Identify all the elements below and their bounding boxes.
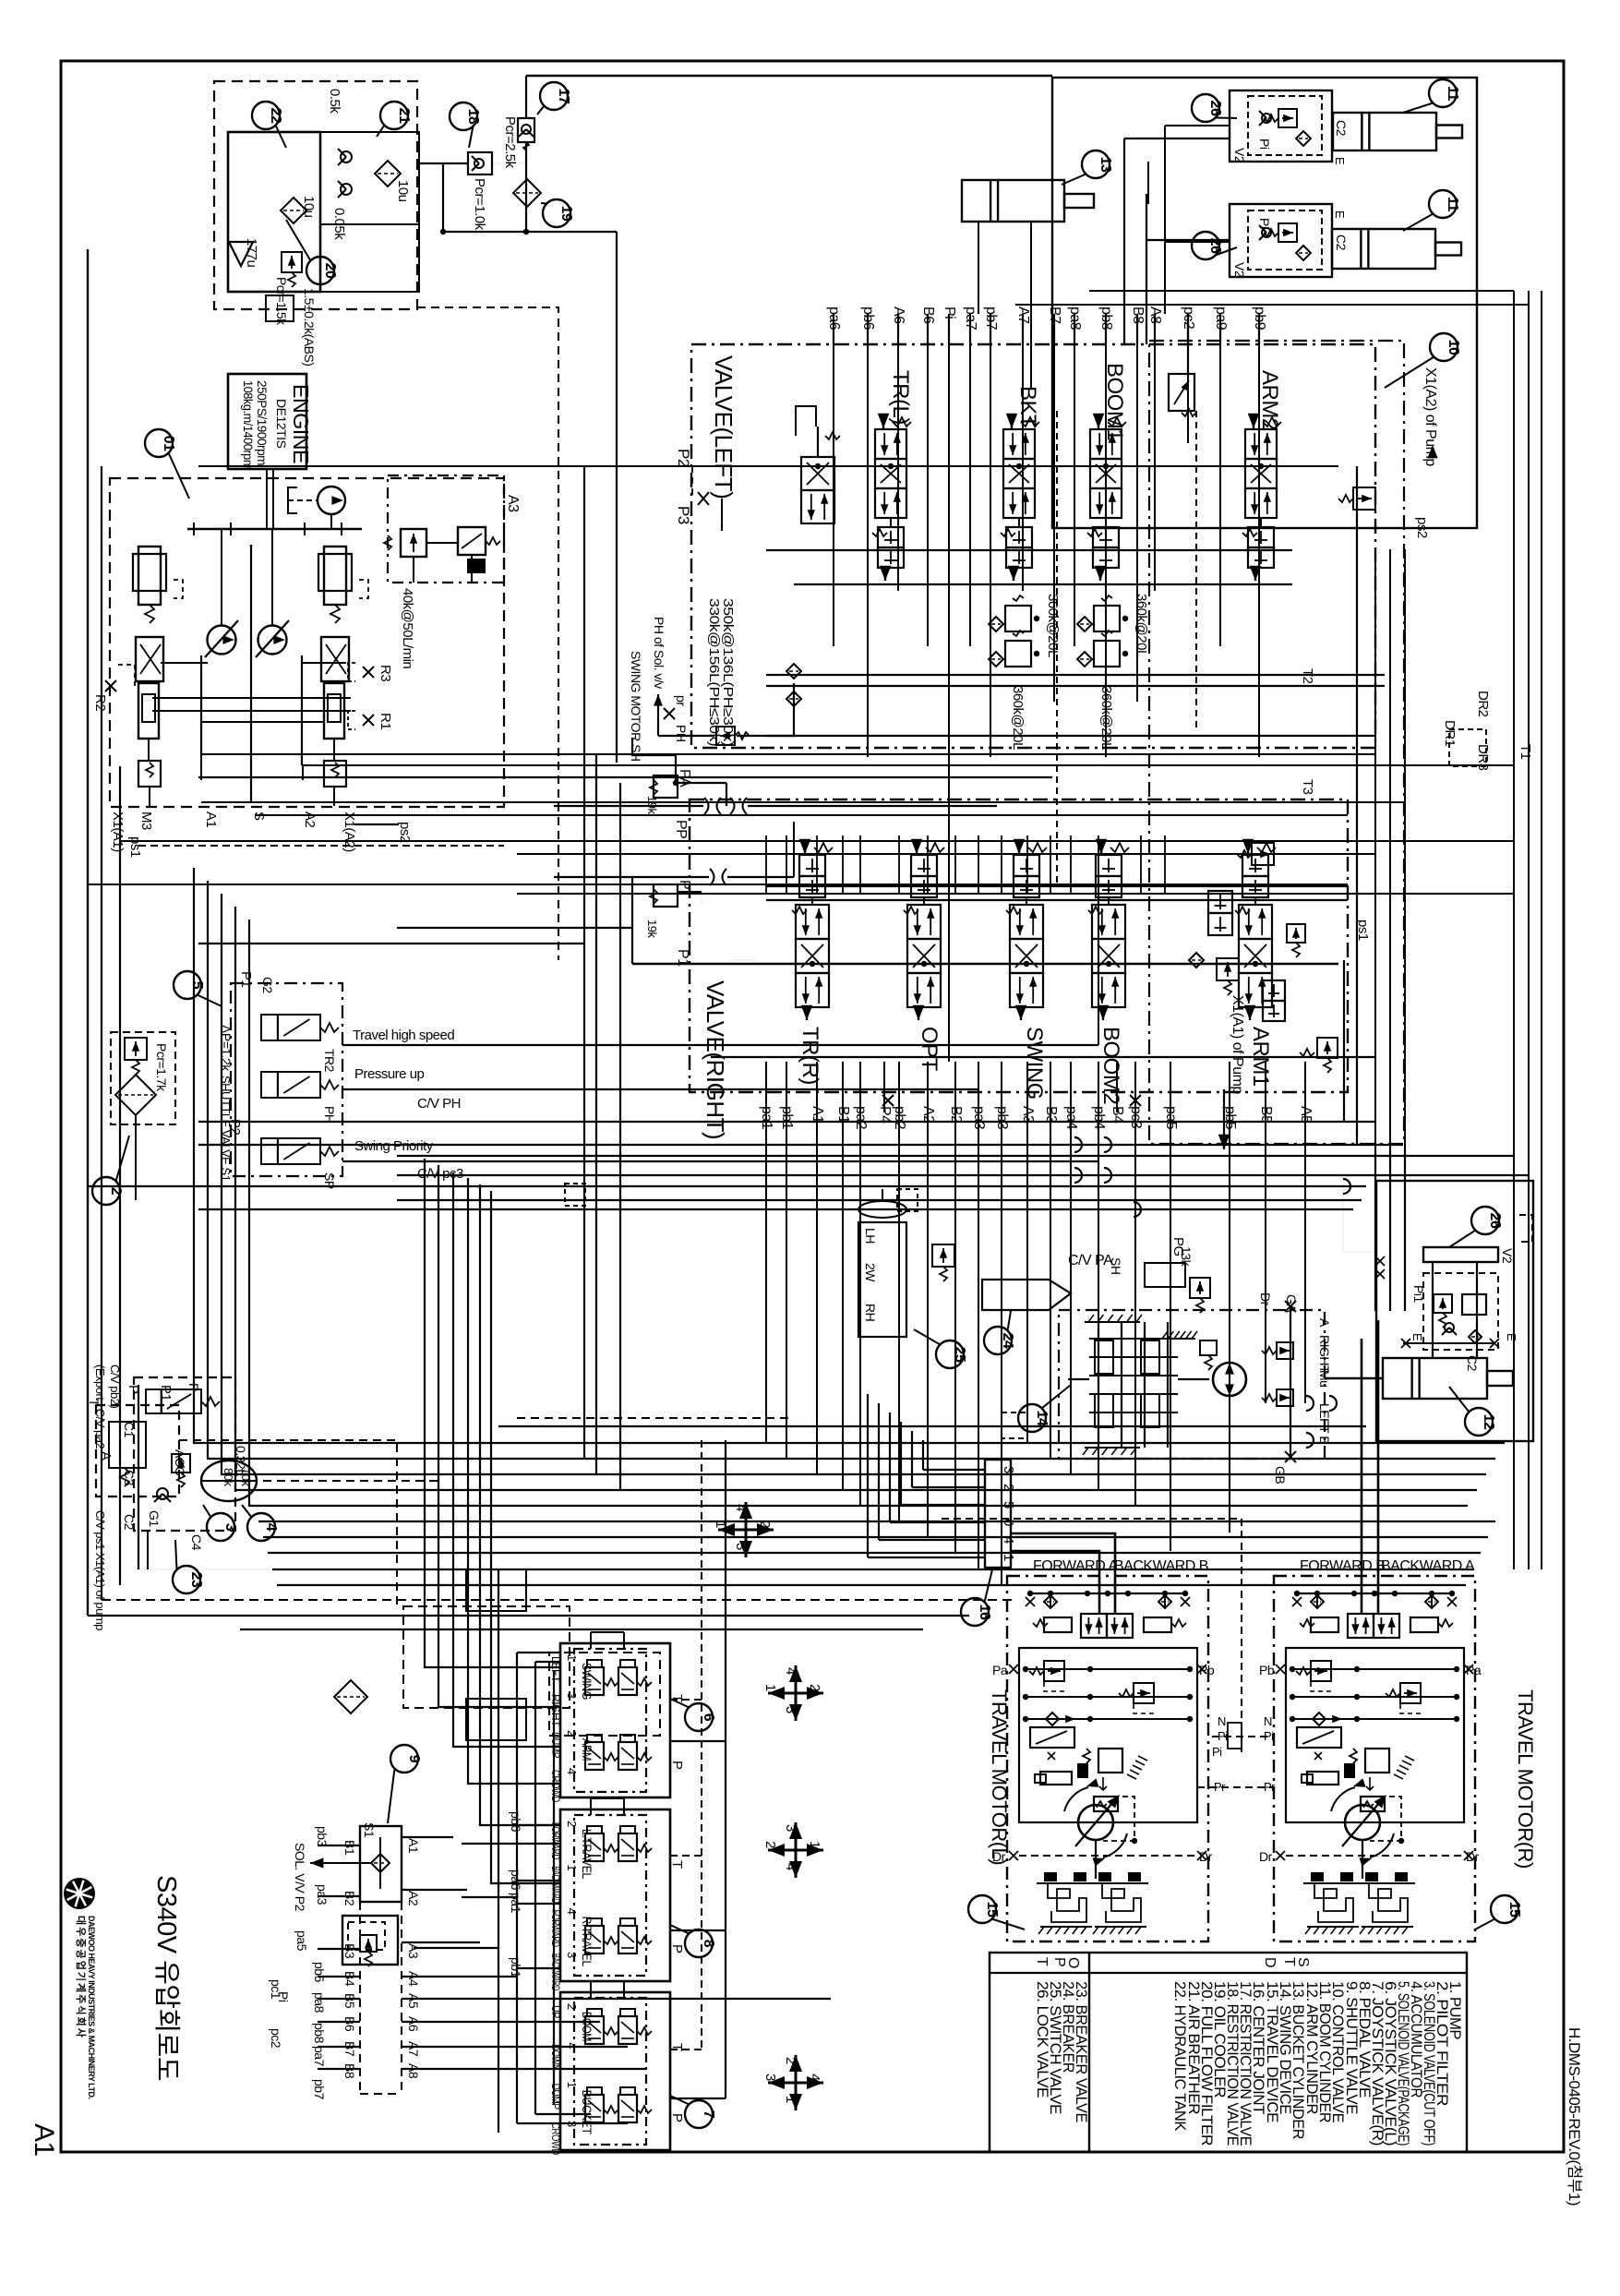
svg-text:대 우 중 공 업 기 계 주 식 회 사: 대 우 중 공 업 기 계 주 식 회 사 — [75, 1916, 88, 2038]
svg-text:V2: V2 — [1232, 262, 1247, 278]
svg-text:Pi: Pi — [1257, 138, 1272, 150]
svg-text:Dr: Dr — [1258, 1292, 1273, 1306]
svg-text:C/V PH: C/V PH — [417, 1096, 461, 1112]
svg-text:15: 15 — [1506, 1902, 1522, 1917]
svg-text:A7: A7 — [406, 2041, 421, 2057]
svg-text:A6: A6 — [406, 2016, 421, 2032]
svg-text:V2: V2 — [1500, 1248, 1515, 1264]
svg-text:0: 0 — [1001, 1519, 1016, 1526]
svg-text:pa6: pa6 — [509, 1869, 523, 1891]
svg-text:B8: B8 — [342, 2063, 357, 2079]
svg-text:Pi: Pi — [276, 1991, 291, 2002]
svg-text:pa1: pa1 — [509, 1893, 523, 1914]
svg-text:Pi: Pi — [1218, 1729, 1228, 1743]
svg-text:C/V pb2): C/V pb2) — [108, 1364, 122, 1408]
svg-text:Pi: Pi — [1212, 1745, 1222, 1759]
svg-text:2: 2 — [757, 1521, 773, 1528]
svg-text:pb3: pb3 — [315, 1826, 330, 1847]
svg-text:R3: R3 — [378, 665, 393, 681]
svg-text:24: 24 — [1000, 1333, 1015, 1349]
svg-text:X1(A1) of Pump: X1(A1) of Pump — [1230, 995, 1245, 1094]
svg-text:A1: A1 — [29, 2123, 59, 2157]
svg-text:B4: B4 — [342, 1971, 357, 1987]
svg-text:Swing Priority: Swing Priority — [354, 1138, 434, 1154]
svg-text:GB: GB — [1273, 1466, 1288, 1484]
svg-text:10u: 10u — [301, 196, 317, 218]
svg-text:80k: 80k — [222, 1468, 235, 1486]
svg-text:4: 4 — [565, 2042, 579, 2049]
svg-text:BACKWARD A: BACKWARD A — [1381, 1558, 1475, 1574]
svg-text:2: 2 — [1001, 1484, 1016, 1491]
svg-text:E: E — [1505, 1333, 1518, 1341]
svg-text:PG: PG — [1170, 1237, 1186, 1256]
svg-text:RIGHT: RIGHT — [1317, 1335, 1332, 1374]
svg-text:ENGINE: ENGINE — [289, 384, 313, 463]
svg-text:22: 22 — [268, 108, 283, 124]
svg-text:N: N — [1264, 1714, 1272, 1728]
svg-text:TR(R): TR(R) — [798, 1027, 822, 1085]
svg-text:4: 4 — [565, 1908, 579, 1915]
svg-text:2W: 2W — [863, 1263, 878, 1282]
svg-text:pr: pr — [674, 695, 689, 706]
svg-text:C/V PA: C/V PA — [1068, 1253, 1113, 1268]
svg-text:19k: 19k — [645, 920, 659, 938]
svg-text:D: D — [1262, 1957, 1278, 1967]
svg-text:BOOM2: BOOM2 — [1098, 1027, 1123, 1104]
svg-text:BACKWARD B: BACKWARD B — [1114, 1558, 1208, 1574]
svg-text:FORWARD: FORWARD — [549, 1910, 562, 1948]
svg-text:Pressure up: Pressure up — [354, 1066, 425, 1082]
svg-text:9: 9 — [406, 1755, 422, 1763]
svg-text:H.DMS-0405-REV.0(첨부1): H.DMS-0405-REV.0(첨부1) — [1566, 2027, 1583, 2206]
svg-text:15: 15 — [984, 1902, 1000, 1917]
svg-text:7: 7 — [701, 2110, 716, 2119]
svg-text:P2: P2 — [675, 449, 692, 467]
svg-text:DUMP: DUMP — [549, 2084, 562, 2110]
svg-text:3: 3 — [733, 1543, 749, 1550]
svg-text:B5: B5 — [342, 1993, 357, 2009]
svg-text:M3: M3 — [138, 811, 154, 830]
svg-text:S1: S1 — [362, 1822, 377, 1838]
svg-text:10u: 10u — [395, 180, 411, 202]
svg-text:4: 4 — [783, 1863, 798, 1870]
svg-text:250PS/1900rpm: 250PS/1900rpm — [255, 380, 270, 465]
svg-text:11: 11 — [1445, 86, 1460, 102]
svg-text:P: P — [1051, 1957, 1067, 1966]
svg-text:S: S — [1295, 1957, 1311, 1966]
svg-text:25: 25 — [952, 1347, 967, 1363]
svg-text:TR(L): TR(L) — [888, 370, 913, 425]
svg-text:11: 11 — [1445, 197, 1460, 212]
svg-text:R1: R1 — [378, 713, 393, 729]
svg-text:B6: B6 — [342, 2016, 357, 2032]
svg-text:BACKWARD: BACKWARD — [549, 1866, 562, 1904]
svg-text:VALVE(RIGHT): VALVE(RIGHT) — [702, 980, 729, 1139]
svg-text:PH of Sol. v/v: PH of Sol. v/v — [652, 617, 666, 689]
svg-text:E: E — [1410, 1333, 1424, 1341]
svg-text:TR2: TR2 — [322, 1049, 337, 1073]
svg-text:VALVE(LEFT): VALVE(LEFT) — [710, 355, 738, 499]
svg-text:ps2: ps2 — [1414, 517, 1430, 538]
svg-text:P: P — [669, 2113, 685, 2122]
svg-text:14: 14 — [1034, 1411, 1050, 1426]
svg-text:SP: SP — [322, 1172, 337, 1189]
svg-text:1: 1 — [1001, 1554, 1016, 1561]
svg-text:1: 1 — [807, 1841, 822, 1848]
svg-text:360k@20L: 360k@20L — [1134, 594, 1149, 657]
svg-text:BUCKET: BUCKET — [580, 2090, 594, 2135]
svg-text:22. HYDRAULIC TANK: 22. HYDRAULIC TANK — [1171, 1981, 1188, 2131]
svg-text:N: N — [1218, 1714, 1226, 1728]
svg-text:5: 5 — [189, 981, 205, 990]
svg-text:Pcr=1.7k: Pcr=1.7k — [154, 1043, 169, 1092]
svg-text:P1: P1 — [238, 971, 254, 988]
svg-text:FORWARD B: FORWARD B — [1300, 1558, 1385, 1574]
svg-text:B2: B2 — [342, 1891, 357, 1906]
svg-text:A8: A8 — [406, 2063, 421, 2079]
svg-text:A5: A5 — [406, 1993, 421, 2009]
svg-text:330k@156L(PH≤30k): 330k@156L(PH≤30k) — [706, 598, 722, 747]
svg-text:ps1: ps1 — [127, 836, 143, 858]
svg-text:BACKWARD: BACKWARD — [549, 1953, 562, 1991]
svg-text:E: E — [1333, 210, 1347, 219]
svg-text:P: P — [186, 1383, 201, 1391]
svg-text:RIGHT: RIGHT — [549, 1694, 562, 1727]
svg-text:P: P — [669, 1761, 685, 1770]
svg-text:T: T — [1281, 1957, 1297, 1966]
svg-text:CROWD: CROWD — [549, 1770, 562, 1803]
svg-text:5: 5 — [1001, 1501, 1016, 1509]
svg-text:C3: C3 — [122, 1470, 137, 1486]
svg-text:108kg.m/1400rpm: 108kg.m/1400rpm — [241, 380, 256, 469]
svg-text:BKT: BKT — [1015, 386, 1040, 428]
svg-text:Pcr=1.0k: Pcr=1.0k — [472, 178, 487, 231]
svg-text:T: T — [1034, 1957, 1050, 1966]
svg-text:C2: C2 — [1465, 1355, 1480, 1372]
svg-text:L.TRAVEL: L.TRAVEL — [580, 1829, 594, 1880]
svg-text:SHUTTLE VALVE S1: SHUTTLE VALVE S1 — [219, 1076, 233, 1182]
svg-text:A3: A3 — [505, 495, 521, 512]
svg-text:6: 6 — [701, 1713, 716, 1722]
svg-text:pb8: pb8 — [312, 2023, 327, 2044]
svg-text:DR2: DR2 — [1475, 691, 1491, 717]
svg-text:2: 2 — [565, 2003, 579, 2010]
svg-text:13: 13 — [1098, 157, 1113, 173]
svg-text:2: 2 — [783, 2057, 798, 2064]
svg-text:pb6: pb6 — [509, 1811, 523, 1833]
svg-text:DAEWOO HEAVY INDUSTRIES & MACH: DAEWOO HEAVY INDUSTRIES & MACHINERY LTD. — [87, 1916, 96, 2099]
svg-text:A4: A4 — [406, 1971, 421, 1987]
svg-text:350k@136L(PH≥30k): 350k@136L(PH≥30k) — [720, 598, 736, 747]
svg-text:pa3: pa3 — [315, 1884, 330, 1905]
svg-text:X1(A1): X1(A1) — [110, 811, 126, 852]
svg-text:C/V ps1 X1(A1) of pump: C/V ps1 X1(A1) of pump — [93, 1510, 107, 1630]
svg-text:T: T — [669, 1860, 685, 1869]
svg-text:Travel high speed: Travel high speed — [353, 1028, 454, 1043]
svg-text:P: P — [669, 1944, 685, 1953]
svg-text:V2: V2 — [1232, 148, 1247, 163]
svg-text:A1: A1 — [203, 811, 219, 828]
svg-text:26: 26 — [1207, 101, 1223, 116]
svg-text:Pi1: Pi1 — [1411, 1285, 1426, 1303]
svg-text:1: 1 — [565, 1864, 579, 1870]
svg-text:SH: SH — [1109, 1257, 1123, 1274]
svg-text:20: 20 — [322, 263, 338, 279]
svg-text:A2: A2 — [406, 1891, 421, 1906]
svg-text:pa7: pa7 — [312, 2046, 327, 2067]
svg-text:C2: C2 — [122, 1514, 137, 1531]
svg-text:pb5: pb5 — [312, 1962, 327, 1983]
svg-text:P3: P3 — [675, 506, 692, 524]
svg-text:3: 3 — [565, 1692, 579, 1699]
svg-text:1: 1 — [762, 1684, 778, 1691]
svg-text:177u: 177u — [244, 238, 259, 268]
svg-text:360k@20L: 360k@20L — [1098, 686, 1114, 750]
svg-text:PH: PH — [674, 725, 689, 741]
svg-text:10k: 10k — [239, 1468, 253, 1486]
svg-text:ps2: ps2 — [397, 822, 413, 843]
svg-text:(Export : C/V pa2: (Export : C/V pa2 — [93, 1364, 107, 1449]
svg-text:01: 01 — [161, 436, 176, 451]
svg-text:pa5: pa5 — [294, 1930, 309, 1952]
svg-text:FORWARD: FORWARD — [549, 1822, 562, 1860]
svg-text:CROWD: CROWD — [549, 2122, 562, 2156]
svg-text:T2: T2 — [1300, 668, 1315, 684]
svg-text:26: 26 — [1487, 1213, 1503, 1229]
svg-text:LH: LH — [863, 1228, 878, 1244]
svg-text:C2: C2 — [1334, 234, 1349, 251]
svg-text:23: 23 — [188, 1572, 204, 1588]
svg-text:TRAVEL MOTOR(L): TRAVEL MOTOR(L) — [988, 1689, 1011, 1865]
svg-text:TRAVEL MOTOR(R): TRAVEL MOTOR(R) — [1514, 1689, 1537, 1869]
svg-text:1.5±0.2k(ABS): 1.5±0.2k(ABS) — [302, 288, 317, 366]
svg-text:3: 3 — [565, 1952, 579, 1958]
svg-text:10: 10 — [1446, 340, 1461, 355]
svg-text:Pi: Pi — [1257, 218, 1272, 229]
svg-text:ΔP=1.2k: ΔP=1.2k — [219, 1025, 234, 1072]
svg-text:1: 1 — [565, 1654, 579, 1661]
svg-text:ARM2: ARM2 — [1257, 370, 1282, 430]
svg-text:Dr: Dr — [1259, 1849, 1273, 1864]
svg-text:21: 21 — [396, 108, 412, 124]
svg-text:3: 3 — [783, 1706, 798, 1713]
svg-text:BOOM1: BOOM1 — [1102, 363, 1127, 440]
svg-text:A2: A2 — [302, 811, 318, 828]
svg-text:C1: C1 — [122, 1422, 137, 1438]
svg-text:PP: PP — [673, 820, 689, 838]
svg-text:SWING MOTOR SH: SWING MOTOR SH — [629, 651, 643, 762]
svg-text:pa8: pa8 — [312, 1992, 327, 2014]
svg-text:DOWN: DOWN — [549, 2044, 562, 2070]
svg-text:360k@20L: 360k@20L — [1010, 686, 1026, 750]
svg-text:2: 2 — [762, 1841, 778, 1848]
svg-text:360k@20L: 360k@20L — [1045, 594, 1061, 657]
svg-text:E: E — [1333, 157, 1347, 165]
svg-text:Pb: Pb — [1259, 1663, 1275, 1677]
svg-text:SWING: SWING — [1022, 1027, 1047, 1100]
svg-text:0.5k: 0.5k — [327, 89, 342, 114]
svg-text:1: 1 — [565, 2082, 579, 2088]
svg-text:B1: B1 — [342, 1840, 357, 1856]
svg-text:0.05k: 0.05k — [331, 208, 347, 240]
svg-text:4: 4 — [565, 1768, 579, 1774]
svg-text:O: O — [1065, 1957, 1081, 1968]
svg-text:Pi: Pi — [1264, 1729, 1274, 1743]
svg-text:17: 17 — [556, 89, 571, 104]
svg-text:2: 2 — [565, 1821, 579, 1827]
svg-text:4: 4 — [1001, 1536, 1016, 1544]
svg-text:P1: P1 — [158, 1385, 174, 1401]
svg-text:T1: T1 — [1518, 744, 1533, 760]
svg-text:RH: RH — [863, 1304, 878, 1321]
svg-text:PA: PA — [677, 769, 692, 787]
svg-text:PH: PH — [322, 1106, 337, 1123]
svg-text:pb1: pb1 — [509, 1957, 523, 1978]
svg-text:Pcr=1.5k: Pcr=1.5k — [274, 277, 289, 326]
svg-text:12: 12 — [1481, 1414, 1496, 1430]
svg-text:4: 4 — [807, 2074, 822, 2081]
svg-text:A: A — [1317, 1318, 1332, 1328]
svg-text:A: A — [98, 1451, 114, 1461]
svg-text:pc2: pc2 — [269, 2028, 283, 2049]
svg-text:18: 18 — [465, 109, 481, 125]
svg-text:3: 3 — [1001, 1466, 1016, 1473]
svg-text:pb7: pb7 — [312, 2079, 327, 2100]
svg-text:3: 3 — [783, 1824, 798, 1832]
svg-text:S340V 유압회로도: S340V 유압회로도 — [151, 1875, 182, 2081]
svg-text:4: 4 — [783, 1667, 798, 1675]
svg-text:40k@50L/min: 40k@50L/min — [400, 588, 415, 668]
svg-text:Pa: Pa — [992, 1663, 1008, 1677]
svg-text:4: 4 — [263, 1523, 279, 1532]
svg-text:16: 16 — [977, 1605, 992, 1620]
svg-text:FORWARD A: FORWARD A — [1033, 1558, 1118, 1574]
svg-text:2: 2 — [807, 1684, 822, 1691]
svg-text:R2: R2 — [92, 694, 108, 711]
svg-text:19: 19 — [558, 206, 574, 222]
svg-text:A3: A3 — [406, 1943, 421, 1959]
svg-text:Pcr=2.5k: Pcr=2.5k — [502, 116, 518, 169]
svg-text:LEFT: LEFT — [549, 1656, 562, 1683]
svg-text:4: 4 — [733, 1504, 749, 1511]
svg-text:1: 1 — [783, 2096, 798, 2103]
svg-text:B3: B3 — [342, 1943, 357, 1959]
svg-text:C4: C4 — [189, 1534, 204, 1551]
svg-text:DE12TIS: DE12TIS — [274, 399, 289, 448]
svg-text:2: 2 — [108, 1187, 124, 1196]
svg-text:3: 3 — [762, 2074, 778, 2081]
svg-text:G1: G1 — [147, 1510, 162, 1527]
svg-text:SOL. V/V P2: SOL. V/V P2 — [293, 1843, 307, 1912]
svg-text:A1: A1 — [406, 1838, 421, 1854]
svg-text:LEFT B: LEFT B — [1317, 1403, 1332, 1444]
svg-text:UP: UP — [549, 2005, 562, 2018]
svg-text:8: 8 — [701, 1940, 716, 1948]
svg-text:C2: C2 — [1334, 120, 1349, 137]
svg-text:G2: G2 — [260, 977, 275, 993]
svg-text:OPT: OPT — [917, 1027, 942, 1072]
svg-text:T3: T3 — [1300, 779, 1315, 795]
svg-text:B7: B7 — [342, 2041, 357, 2057]
svg-text:26. LOCK VALVE: 26. LOCK VALVE — [1034, 1981, 1050, 2098]
